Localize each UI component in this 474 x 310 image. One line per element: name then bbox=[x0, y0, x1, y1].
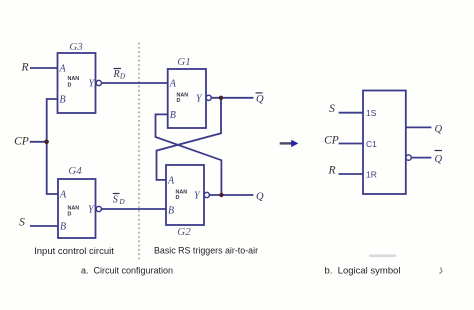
svg-text:B: B bbox=[170, 110, 176, 121]
svg-text:b. Logical symbol: b. Logical symbol bbox=[324, 265, 400, 276]
svg-text:D: D bbox=[176, 195, 180, 201]
svg-text:1S: 1S bbox=[366, 108, 377, 118]
svg-text:B: B bbox=[60, 222, 66, 233]
svg-text:Y: Y bbox=[88, 205, 95, 216]
svg-text:Y: Y bbox=[89, 79, 96, 90]
svg-text:CP: CP bbox=[14, 136, 29, 148]
svg-text:D: D bbox=[119, 198, 125, 206]
svg-text:Basic RS triggers air-to-air: Basic RS triggers air-to-air bbox=[154, 246, 258, 256]
svg-text:Y: Y bbox=[196, 93, 203, 104]
svg-text:G1: G1 bbox=[177, 56, 190, 68]
svg-text:S: S bbox=[329, 103, 335, 115]
svg-text:D: D bbox=[119, 73, 125, 81]
svg-text:A: A bbox=[167, 175, 175, 186]
svg-text:Q: Q bbox=[435, 124, 443, 135]
svg-text:R: R bbox=[327, 165, 335, 177]
svg-text:S: S bbox=[113, 195, 118, 206]
svg-text:NAN: NAN bbox=[68, 76, 80, 82]
svg-text:S: S bbox=[19, 217, 25, 229]
svg-text:Q: Q bbox=[435, 154, 443, 165]
svg-text:G3: G3 bbox=[69, 41, 83, 53]
svg-text:R: R bbox=[113, 69, 120, 80]
svg-text:D: D bbox=[177, 98, 181, 104]
svg-text:B: B bbox=[168, 206, 174, 217]
svg-text:CP: CP bbox=[324, 135, 339, 147]
svg-text:D: D bbox=[68, 212, 72, 218]
svg-text:G4: G4 bbox=[68, 165, 82, 177]
svg-text:G2: G2 bbox=[177, 226, 191, 238]
svg-text:A: A bbox=[59, 64, 67, 75]
svg-text:D: D bbox=[68, 83, 72, 89]
svg-text:a. Circuit configuration: a. Circuit configuration bbox=[81, 265, 173, 275]
svg-text:R: R bbox=[20, 62, 28, 74]
svg-text:Q: Q bbox=[256, 94, 264, 105]
svg-text:A: A bbox=[59, 190, 67, 201]
svg-text:A: A bbox=[169, 79, 177, 90]
svg-text:Input control circuit: Input control circuit bbox=[34, 246, 114, 257]
svg-text:B: B bbox=[60, 95, 66, 106]
svg-text:Q: Q bbox=[256, 192, 264, 203]
svg-text:Y: Y bbox=[194, 191, 201, 202]
svg-text:C1: C1 bbox=[366, 139, 377, 149]
svg-text:1R: 1R bbox=[366, 170, 377, 180]
